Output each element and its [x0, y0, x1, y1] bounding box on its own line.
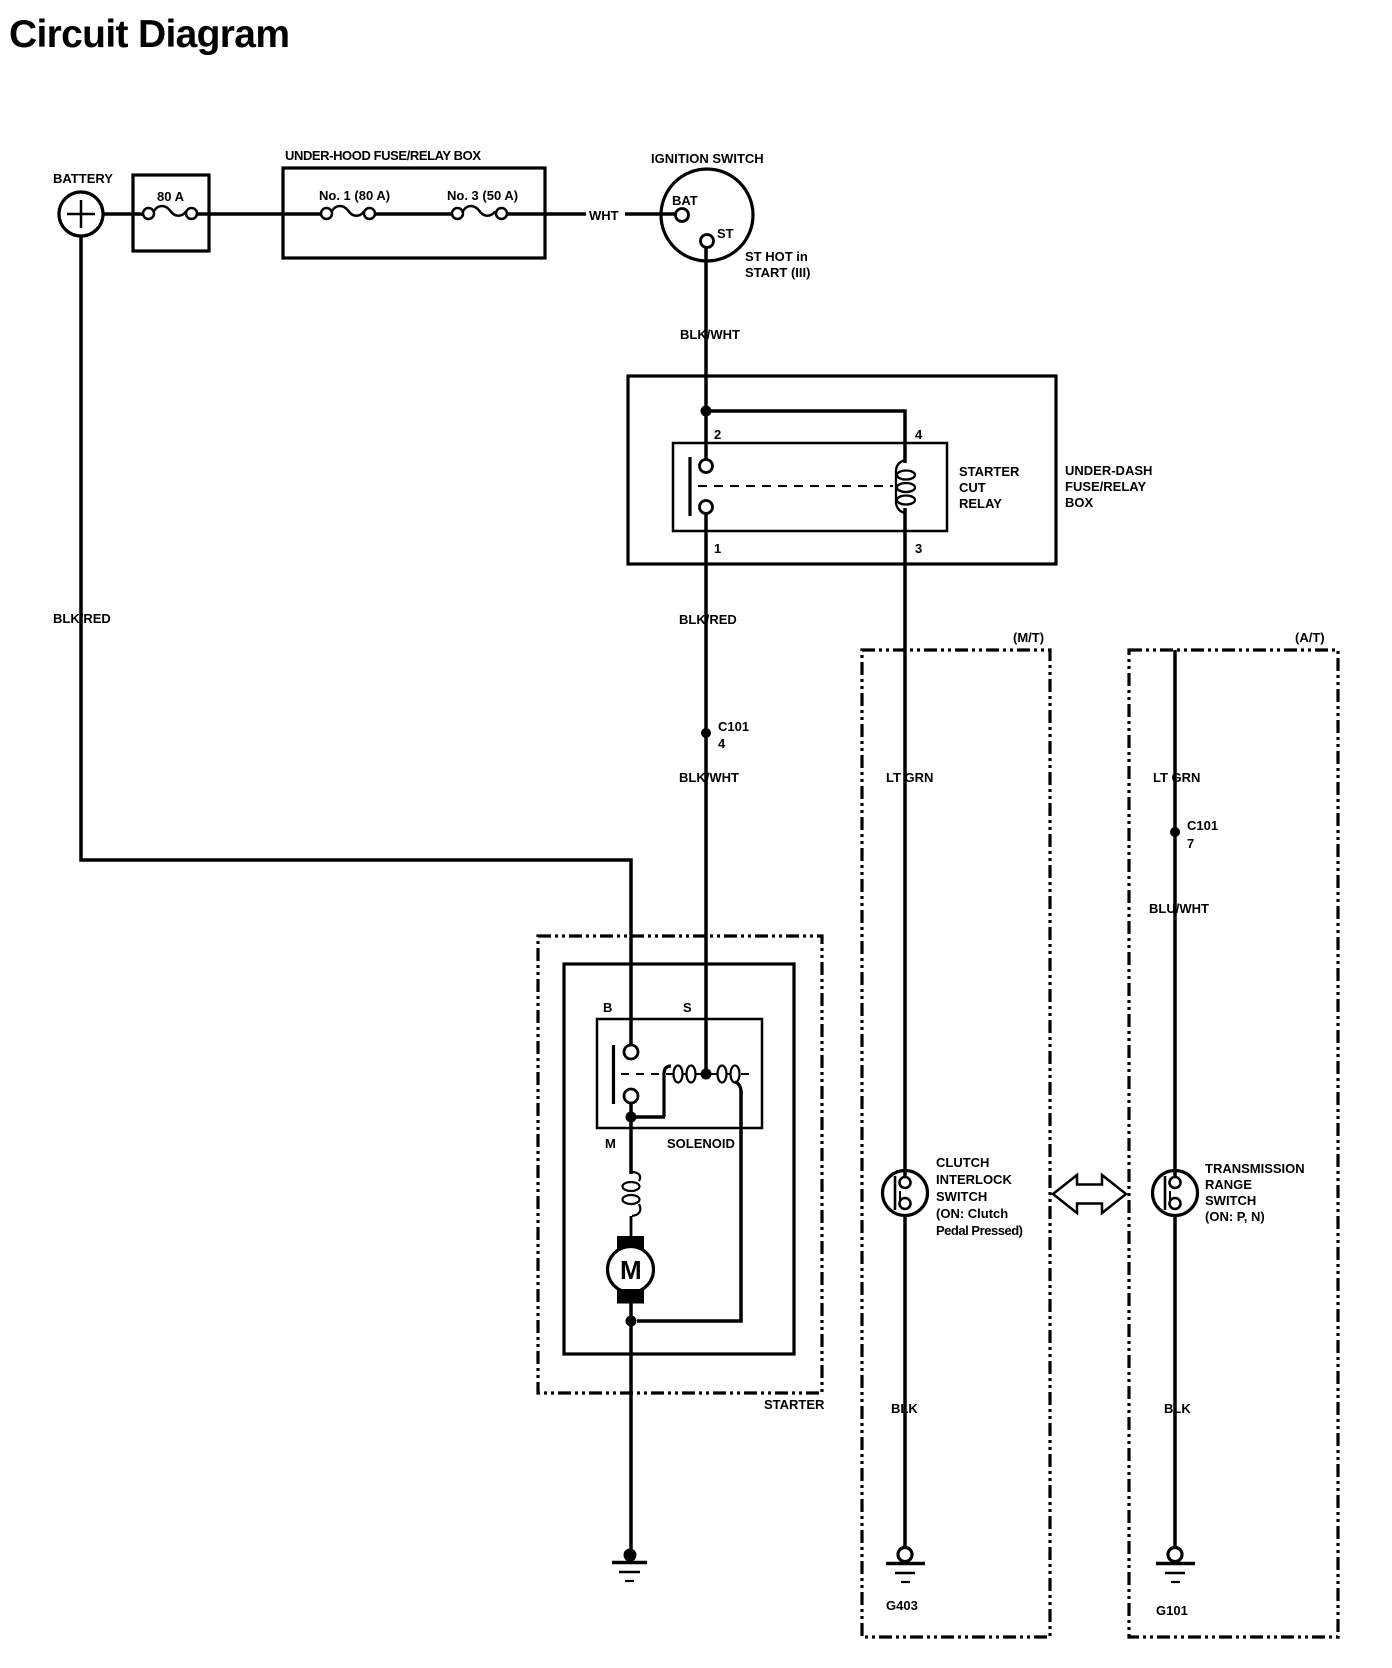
starter assembly outer box (dash-dot) [538, 936, 822, 1393]
svg-text:(M/T): (M/T) [1013, 630, 1044, 645]
svg-text:C101: C101 [1187, 818, 1218, 833]
fuse 80 A [133, 175, 209, 251]
svg-text:BATTERY: BATTERY [53, 171, 113, 186]
svg-text:BOX: BOX [1065, 495, 1094, 510]
svg-text:80 A: 80 A [157, 189, 185, 204]
transmission range switch S2 [1153, 1171, 1198, 1216]
relay coil [896, 460, 905, 513]
svg-text:WHT: WHT [589, 208, 619, 223]
svg-text:1: 1 [714, 541, 721, 556]
svg-text:S: S [683, 1000, 692, 1015]
ground G101 [1156, 1548, 1195, 1583]
wire battery to 80A fuse [103, 212, 143, 216]
svg-text:RELAY: RELAY [959, 496, 1002, 511]
svg-text:BAT: BAT [672, 193, 698, 208]
svg-text:G403: G403 [886, 1598, 918, 1613]
connector C101 pin 7 [1170, 827, 1180, 837]
svg-text:ST HOT in: ST HOT in [745, 249, 808, 264]
svg-text:UNDER-DASH: UNDER-DASH [1065, 463, 1152, 478]
wire relay pin 3 down to M/T [903, 508, 907, 1177]
svg-text:SWITCH: SWITCH [1205, 1193, 1256, 1208]
svg-text:3: 3 [915, 541, 922, 556]
solenoid coil [664, 1066, 671, 1117]
M/T branch box (dash-dot) [862, 650, 1050, 1637]
svg-text:SOLENOID: SOLENOID [667, 1136, 735, 1151]
wire A/T LT GRN [1173, 650, 1177, 1177]
wire coil right end down to motor bottom [637, 1090, 741, 1321]
svg-text:INTERLOCK: INTERLOCK [936, 1172, 1012, 1187]
svg-text:BLU/WHT: BLU/WHT [1149, 901, 1209, 916]
svg-text:RANGE: RANGE [1205, 1177, 1252, 1192]
fuse No. 3 (50 A) [452, 206, 507, 219]
svg-text:STARTER: STARTER [959, 464, 1020, 479]
solenoid contacts [614, 1045, 639, 1104]
starter inner box [564, 964, 794, 1354]
svg-text:M: M [620, 1255, 642, 1285]
node junction pin2/pin4 [701, 406, 712, 417]
svg-text:IGNITION SWITCH: IGNITION SWITCH [651, 151, 764, 166]
wire motor to ground [629, 1303, 633, 1552]
connector C101 pin 4 [701, 728, 711, 738]
wire fuse to under-hood box [197, 212, 320, 216]
svg-text:(A/T): (A/T) [1295, 630, 1325, 645]
solenoid dashed line [621, 1073, 752, 1075]
wire battery down BLK/RED [81, 236, 631, 1046]
node motor bottom junction [626, 1316, 637, 1327]
wire ST to relay BLK/WHT [704, 248, 708, 461]
svg-text:(ON: P, N): (ON: P, N) [1205, 1209, 1265, 1224]
svg-text:BLK: BLK [891, 1401, 918, 1416]
svg-text:LT GRN: LT GRN [886, 770, 933, 785]
wire clutch switch to ground BLK [903, 1216, 907, 1548]
svg-text:BLK/RED: BLK/RED [679, 612, 737, 627]
svg-text:BLK/RED: BLK/RED [53, 611, 111, 626]
starter motor M1 [617, 1236, 644, 1251]
svg-text:UNDER-HOOD FUSE/RELAY BOX: UNDER-HOOD FUSE/RELAY BOX [285, 148, 481, 163]
svg-text:B: B [603, 1000, 612, 1015]
arrow M/T equivalent A/T [1053, 1175, 1126, 1213]
ignition switch U1 [661, 169, 753, 261]
svg-text:4: 4 [915, 427, 923, 442]
node M junction [626, 1112, 637, 1123]
clutch interlock switch S1 [883, 1171, 928, 1216]
svg-text:2: 2 [714, 427, 721, 442]
svg-text:G101: G101 [1156, 1603, 1188, 1618]
svg-text:No. 3 (50 A): No. 3 (50 A) [447, 188, 518, 203]
relay dashed actuation line [698, 485, 893, 487]
svg-text:TRANSMISSION: TRANSMISSION [1205, 1161, 1305, 1176]
wire junction to relay pin 4 [706, 411, 905, 463]
under-hood fuse/relay box [283, 168, 545, 258]
svg-text:7: 7 [1187, 836, 1194, 851]
motor field coil L1 [631, 1172, 640, 1181]
svg-text:Circuit Diagram: Circuit Diagram [9, 13, 290, 56]
wire WHT to ignition switch [507, 212, 586, 216]
svg-text:FUSE/RELAY: FUSE/RELAY [1065, 479, 1146, 494]
wire between fuses [375, 212, 451, 216]
svg-text:BLK/WHT: BLK/WHT [680, 327, 740, 342]
wire relay pin 1 down BLK/RED [704, 513, 708, 1074]
svg-text:CUT: CUT [959, 480, 986, 495]
relay contact pins [690, 457, 713, 516]
svg-text:ST: ST [717, 226, 734, 241]
wire M contact down to motor [629, 1103, 633, 1174]
svg-text:C101: C101 [718, 719, 749, 734]
svg-text:Pedal Pressed): Pedal Pressed) [936, 1223, 1023, 1238]
battery [59, 192, 103, 236]
svg-text:M: M [605, 1136, 616, 1151]
A/T branch box (dash-dot) [1129, 650, 1338, 1637]
svg-text:CLUTCH: CLUTCH [936, 1155, 989, 1170]
ground (starter) [612, 1549, 647, 1581]
wire coil left end to M node [631, 1115, 665, 1119]
starter cut relay K1 [673, 443, 947, 531]
svg-text:4: 4 [718, 736, 726, 751]
wire range switch to ground BLK [1173, 1216, 1177, 1548]
svg-text:No. 1 (80 A): No. 1 (80 A) [319, 188, 390, 203]
svg-text:START (III): START (III) [745, 265, 810, 280]
fuse No. 1 (80 A) [321, 206, 375, 219]
solenoid box [597, 1019, 762, 1128]
ground G403 [886, 1548, 925, 1583]
svg-text:BLK: BLK [1164, 1401, 1191, 1416]
svg-text:STARTER: STARTER [764, 1397, 825, 1412]
svg-text:(ON: Clutch: (ON: Clutch [936, 1206, 1008, 1221]
svg-text:LT GRN: LT GRN [1153, 770, 1200, 785]
under-dash fuse/relay box [628, 376, 1056, 564]
svg-text:SWITCH: SWITCH [936, 1189, 987, 1204]
svg-text:BLK/WHT: BLK/WHT [679, 770, 739, 785]
node S coil junction [701, 1069, 712, 1080]
